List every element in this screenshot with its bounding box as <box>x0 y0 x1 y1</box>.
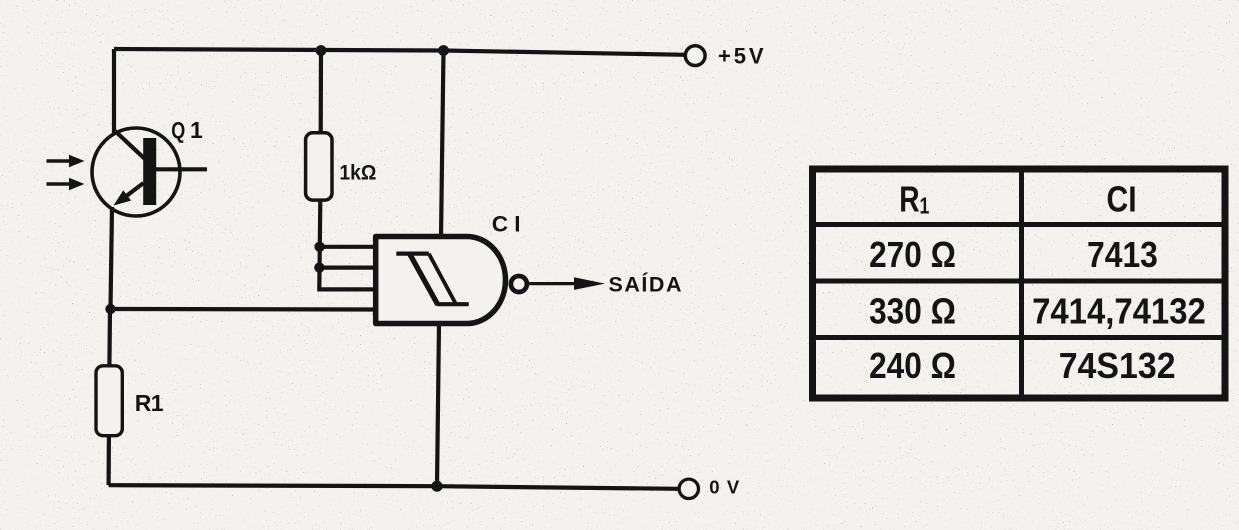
junction dot on top rail at power line <box>438 45 449 56</box>
label Q1 <box>171 117 203 143</box>
wire node A down to R1 <box>107 309 112 366</box>
junction dot on bottom rail <box>431 481 442 492</box>
svg-text:330 Ω: 330 Ω <box>869 290 956 331</box>
transistor Q1 collector diagonal <box>114 130 146 160</box>
svg-text:1: 1 <box>151 390 164 416</box>
hysteresis symbol right diagonal <box>429 254 456 305</box>
table divider row 1 <box>816 222 1226 227</box>
hysteresis symbol left diagonal <box>410 254 438 305</box>
wire gate input 1 <box>320 245 378 249</box>
op-amp gate CI body (NAND Schmitt) <box>376 237 506 324</box>
table outer border <box>813 169 1226 398</box>
node A junction dot (emitter/R1/gate input) <box>105 304 115 314</box>
hysteresis symbol bottom line <box>437 302 469 306</box>
svg-text:CI: CI <box>492 212 521 237</box>
svg-text:270 Ω: 270 Ω <box>869 234 956 275</box>
output arrowhead <box>574 277 605 290</box>
svg-text:CI: CI <box>1107 179 1137 220</box>
wire Q1 emitter down to node A <box>111 207 113 309</box>
wire power line bottom (gate to 0V rail) <box>437 324 439 487</box>
wire bottom 0V rail <box>109 485 679 489</box>
wire node A to gate input 4 <box>111 307 379 312</box>
wire gate input 2 <box>319 266 378 270</box>
light arrow 2 <box>47 178 85 190</box>
wire top rail to 1k resistor <box>319 51 323 134</box>
wire top +5V rail <box>114 49 685 55</box>
svg-text:240 Ω: 240 Ω <box>869 345 956 386</box>
table divider row 2 <box>816 279 1226 284</box>
wire power line top (rail to gate) <box>441 51 444 238</box>
light arrow 1 <box>47 155 85 167</box>
terminal +5V circle <box>685 46 705 66</box>
svg-text:Q: Q <box>171 117 185 143</box>
table divider row 3 <box>816 335 1226 340</box>
transistor Q1 body circle <box>92 128 180 216</box>
wire 1k resistor down to gate inputs <box>319 200 378 289</box>
svg-text:1: 1 <box>190 117 203 143</box>
junction dot on top rail at 1k resistor <box>316 45 327 56</box>
hysteresis symbol top line <box>396 252 429 256</box>
terminal 0V circle <box>679 479 698 498</box>
svg-text:+5V: +5V <box>718 44 764 69</box>
table vertical divider <box>1019 173 1024 395</box>
svg-text:74S132: 74S132 <box>1059 345 1176 386</box>
svg-text:1kΩ: 1kΩ <box>339 161 376 184</box>
junction dot gate input 1 <box>314 242 324 252</box>
svg-text:7413: 7413 <box>1087 234 1158 275</box>
transistor Q1 base bar <box>143 138 156 205</box>
junction dot gate input 2 <box>314 262 324 272</box>
wire gate output <box>529 282 578 285</box>
label R1 <box>135 390 164 416</box>
wire R1 to bottom rail <box>106 436 111 486</box>
transistor Q1 emitter diagonal with arrow <box>125 183 144 197</box>
svg-text:SAÍDA: SAÍDA <box>609 272 682 297</box>
transistor Q1 base lead <box>156 167 207 171</box>
resistor 1k body <box>306 133 332 200</box>
svg-text:R: R <box>135 390 152 416</box>
resistor R1 body <box>96 366 122 436</box>
svg-text:7414,74132: 7414,74132 <box>1032 290 1206 331</box>
gate output inversion bubble <box>511 276 527 292</box>
wire left vertical to Q1 collector <box>112 49 116 134</box>
